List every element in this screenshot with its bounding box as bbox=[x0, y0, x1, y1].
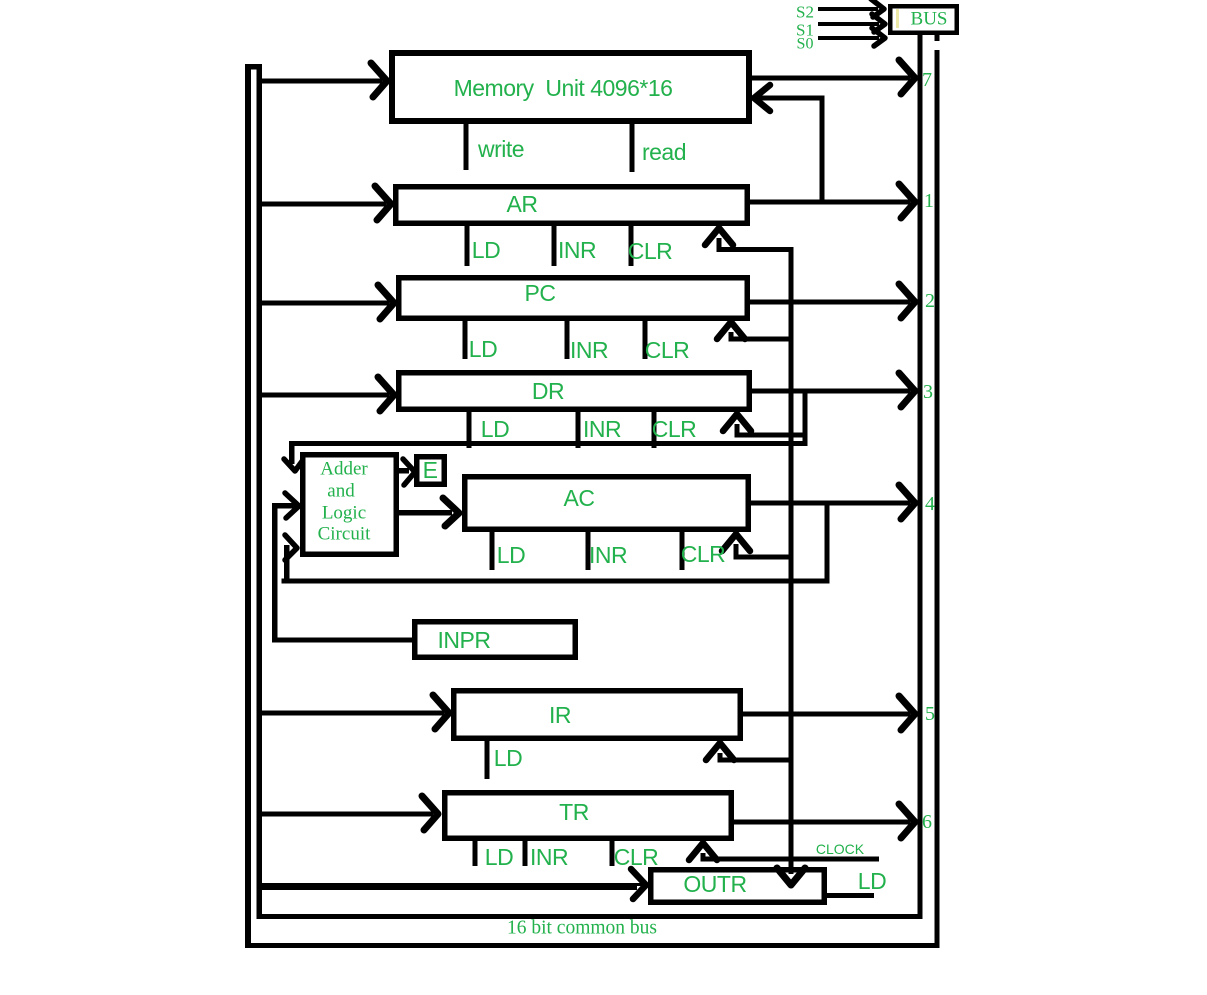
svg-text:INR: INR bbox=[570, 337, 608, 363]
svg-text:7: 7 bbox=[922, 69, 932, 91]
svg-text:LD: LD bbox=[485, 844, 513, 870]
svg-text:CLR: CLR bbox=[614, 844, 659, 870]
svg-text:CLOCK: CLOCK bbox=[816, 841, 865, 857]
svg-text:AR: AR bbox=[507, 191, 538, 217]
svg-text:Memory Unit 4096*16: Memory Unit 4096*16 bbox=[454, 75, 673, 101]
svg-text:S2: S2 bbox=[796, 3, 814, 22]
svg-text:and: and bbox=[327, 481, 355, 502]
svg-text:LD: LD bbox=[481, 416, 509, 442]
svg-text:4: 4 bbox=[925, 493, 935, 515]
svg-text:INR: INR bbox=[583, 416, 621, 442]
svg-text:CLR: CLR bbox=[628, 238, 673, 264]
svg-text:PC: PC bbox=[525, 280, 556, 306]
svg-text:BUS: BUS bbox=[911, 9, 948, 30]
svg-text:3: 3 bbox=[923, 381, 933, 403]
svg-text:E: E bbox=[423, 457, 438, 483]
svg-text:OUTR: OUTR bbox=[683, 871, 746, 897]
svg-text:Adder: Adder bbox=[320, 459, 368, 480]
svg-text:CLR: CLR bbox=[652, 416, 697, 442]
svg-text:1: 1 bbox=[924, 190, 934, 212]
svg-text:CLR: CLR bbox=[681, 541, 726, 567]
svg-text:S0: S0 bbox=[797, 36, 814, 53]
svg-text:IR: IR bbox=[549, 702, 571, 728]
svg-text:write: write bbox=[477, 136, 524, 162]
svg-text:INR: INR bbox=[530, 844, 568, 870]
svg-text:INR: INR bbox=[589, 542, 627, 568]
svg-text:LD: LD bbox=[494, 745, 522, 771]
svg-text:LD: LD bbox=[497, 542, 525, 568]
svg-text:5: 5 bbox=[925, 703, 935, 725]
svg-text:read: read bbox=[642, 139, 686, 165]
svg-text:16 bit common bus: 16 bit common bus bbox=[507, 918, 657, 939]
svg-text:LD: LD bbox=[858, 868, 886, 894]
svg-text:INR: INR bbox=[558, 237, 596, 263]
svg-text:2: 2 bbox=[925, 290, 935, 312]
svg-text:INPR: INPR bbox=[438, 627, 491, 653]
svg-text:AC: AC bbox=[564, 485, 595, 511]
svg-text:LD: LD bbox=[469, 336, 497, 362]
svg-text:Circuit: Circuit bbox=[318, 524, 371, 545]
svg-text:DR: DR bbox=[532, 378, 564, 404]
svg-text:LD: LD bbox=[472, 237, 500, 263]
svg-text:TR: TR bbox=[559, 799, 589, 825]
svg-text:Logic: Logic bbox=[322, 503, 366, 524]
svg-text:6: 6 bbox=[922, 811, 932, 833]
svg-text:CLR: CLR bbox=[645, 337, 690, 363]
